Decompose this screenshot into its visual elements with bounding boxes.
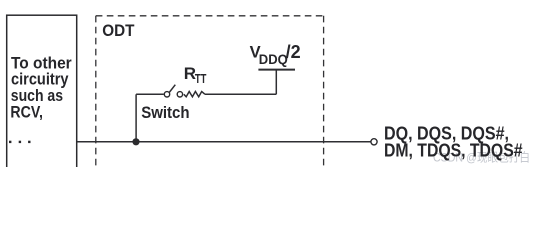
svg-text:Switch: Switch (141, 104, 189, 122)
svg-text:DDQ: DDQ (259, 51, 288, 67)
svg-text:RCV,: RCV, (10, 102, 43, 121)
svg-text:/2: /2 (286, 42, 301, 62)
svg-text:DM, TDQS, TDQS#: DM, TDQS, TDQS# (384, 141, 523, 161)
svg-text:ODT: ODT (102, 22, 134, 40)
svg-text:TT: TT (195, 71, 207, 86)
